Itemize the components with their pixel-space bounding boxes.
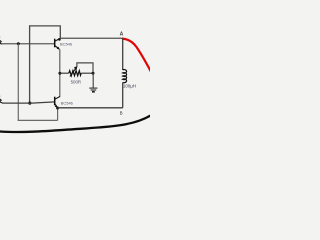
potentiometer wiper arrow [70, 67, 77, 76]
svg-text:BC546: BC546 [60, 41, 73, 46]
transistor Q2 emitter stroke with arrow [55, 104, 58, 108]
svg-text:B: B [120, 110, 123, 115]
waveform curve A (red) [123, 39, 151, 71]
wire: inductor top lead [122, 38, 124, 70]
wire: potentiometer right lead [81, 72, 93, 74]
resistor R1 (left edge, cut off) zigzag tail [0, 40, 2, 44]
junction node at Q1 collector [58, 38, 61, 41]
wire: emitter rail to inductor [58, 107, 123, 109]
junction node on Q2 base wire [28, 102, 31, 105]
svg-text:A: A [120, 31, 124, 37]
wire: bottom loop right vertical up to Q2 emitter node [57, 108, 59, 120]
transistor Q2 BC546 base bar [54, 97, 56, 106]
wire: inductor bottom lead [122, 82, 124, 107]
transistor Q1 collector stroke [55, 38, 60, 41]
wire: coupling rectangle top (Q1 collector to Q2 base) [30, 26, 61, 103]
svg-text:k: k [0, 93, 1, 98]
svg-text:100µH: 100µH [123, 83, 136, 88]
wire: Q1 emitter to Q2 collector vertical [59, 49, 61, 96]
wire: feedback vertical from Q1 base down to bottom loop [17, 44, 19, 121]
wire: tap to potentiometer [60, 72, 69, 74]
wire: Q2 base wire y=102.6 [2, 102, 55, 103]
wire: Q1 base wire y=43.8 [2, 43, 55, 45]
inductor L1 coil [123, 70, 127, 83]
transistor Q2 collector stroke [55, 96, 60, 99]
wire: wiper short loop [77, 63, 93, 73]
ground symbol [92, 73, 94, 88]
waveform curve B (black) [0, 115, 151, 132]
potentiometer VR1 zigzag body [69, 71, 81, 76]
junction node: potentiometer/ground [92, 72, 95, 75]
junction node on Q1 base wire [17, 42, 20, 45]
svg-text:k: k [0, 34, 1, 39]
svg-text:500R: 500R [71, 80, 82, 85]
svg-text:BC546: BC546 [61, 100, 74, 105]
junction node: potentiometer tap [58, 72, 61, 75]
wire: bottom loop horizontal [18, 119, 58, 121]
transistor Q1 emitter stroke with arrow [55, 46, 60, 49]
wire: collector wire to node A [60, 37, 123, 39]
transistor Q1 BC546 base bar [54, 39, 56, 48]
junction node at Q2 emitter [56, 107, 59, 110]
resistor R2 (left edge, cut off) zigzag tail [0, 98, 2, 102]
